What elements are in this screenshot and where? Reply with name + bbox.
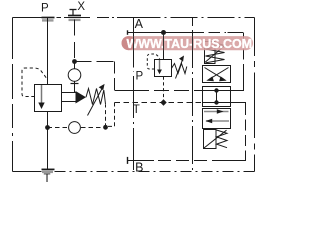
wire line A to pilot valve redraw over watermark <box>163 35 165 51</box>
divider redraw over watermark <box>133 36 135 50</box>
wire A wrap right side solid <box>231 74 244 91</box>
junction dot drain gallery <box>103 125 108 130</box>
boundary outer right chain line <box>254 18 256 57</box>
boundary divider between left and right blocks <box>133 18 135 67</box>
line A left terminator tick <box>127 30 129 35</box>
directional valve position square 2 (centre) <box>203 87 231 107</box>
wire dashed T gallery to directional valve <box>115 102 203 104</box>
directional valve position square 3 <box>203 109 231 129</box>
wire X pilot line down <box>74 20 76 62</box>
directional valve position square 1 <box>203 66 231 83</box>
gauge circle on X pilot line <box>68 69 81 82</box>
watermark band <box>122 36 254 50</box>
line B left terminator tick <box>127 157 129 164</box>
pilot poppet triangle <box>76 91 87 104</box>
wire from line A down to reducing pilot valve <box>163 33 165 60</box>
directional valve top solenoid box <box>205 42 216 64</box>
boundary outer left chain line <box>12 18 14 60</box>
straight arrowhead right <box>217 109 224 114</box>
line A <box>128 32 193 34</box>
svg-text:T: T <box>133 104 140 116</box>
directional valve bottom box <box>204 130 217 149</box>
main relief valve body square <box>35 85 62 112</box>
divider2 redraw over watermark <box>192 36 194 50</box>
port X tick <box>70 9 77 11</box>
svg-text:P: P <box>135 71 143 83</box>
crossed arrowhead 1 <box>206 76 214 81</box>
wire stub main valve to pilot poppet upper <box>62 92 76 94</box>
boundary outer bottom chain line <box>13 171 42 173</box>
wire B wrap right side <box>231 103 246 105</box>
wire dashed pilot spring drain <box>105 104 107 127</box>
svg-text:B: B <box>135 160 143 174</box>
wire P line down to main valve <box>47 18 49 85</box>
svg-text:A: A <box>135 17 144 31</box>
junction dot on main T line <box>45 125 50 130</box>
straight arrow left line <box>206 120 229 122</box>
directional valve bottom spring <box>217 130 228 148</box>
port X top bar <box>68 15 81 17</box>
directional valve bottom diagonal <box>204 130 227 148</box>
svg-text:T: T <box>43 173 50 185</box>
wire pilot loop dashed from valve left side to inlet <box>22 68 48 97</box>
wire dashed T gallery wrap down to drain <box>106 103 115 127</box>
crossed arrow line 2 <box>205 68 224 79</box>
line B dashed middle <box>154 160 225 162</box>
port X plug bar (gray) <box>69 19 81 21</box>
watermark logo cap <box>122 36 136 50</box>
boundary divider of directional valve section <box>192 18 194 27</box>
reducing pilot valve internal arrowhead <box>157 70 162 75</box>
centre position bridge <box>216 91 218 103</box>
svg-text:WWW.TAU-RUS.COM: WWW.TAU-RUS.COM <box>127 37 253 51</box>
main relief valve internal arrowhead <box>38 103 44 110</box>
junction dot bridge top <box>214 88 218 92</box>
wire stub main valve to pilot poppet lower <box>62 101 76 103</box>
reducing valve adjustment arrow <box>176 61 183 79</box>
boundary outer top chain line <box>13 17 42 19</box>
junction dot on line A <box>161 30 166 35</box>
pilot relief adjustment arrow <box>88 88 103 115</box>
reducing pilot valve body square <box>155 60 172 77</box>
wire dashed X pilot to right block P gallery <box>75 61 115 63</box>
plugged vent tick on pilot line <box>71 83 79 85</box>
svg-text:X: X <box>77 1 85 13</box>
junction dot X pilot line <box>72 59 77 64</box>
port T plug bar (gray) <box>42 171 53 173</box>
centre position T-B through line <box>203 102 231 104</box>
wire dashed pilot loop of reducing valve <box>147 54 159 69</box>
directional valve top spring <box>206 43 225 63</box>
line B solid left <box>128 160 155 162</box>
main relief valve internal flow path <box>41 85 43 103</box>
wire dashed drain gallery <box>48 127 69 129</box>
straight arrowhead left <box>205 119 212 124</box>
wire main valve to T port <box>47 112 49 170</box>
reducing pilot valve spring <box>172 64 187 74</box>
junction dot bridge bottom <box>214 100 218 104</box>
svg-text:P: P <box>41 3 49 15</box>
pilot relief spring <box>86 89 106 105</box>
port T bottom bar <box>42 168 55 170</box>
drain gauge circle <box>69 122 81 134</box>
wire A wrap right side dashed <box>243 33 245 74</box>
centre position P-A through line <box>203 90 231 92</box>
wire dashed reducing valve drain to T gallery <box>163 77 165 103</box>
crossed arrowhead 2 <box>219 76 227 81</box>
straight arrow right line <box>204 111 229 113</box>
reducing pilot valve internal flow path <box>159 60 161 70</box>
wire dashed P pilot gallery to directional valve <box>134 90 203 92</box>
port P top bar <box>42 17 55 19</box>
port P plug bar (gray) <box>42 19 54 21</box>
crossed arrow line 1 <box>210 68 229 79</box>
junction diamond on T gallery <box>160 99 166 105</box>
directional valve top diagonal <box>205 45 227 63</box>
